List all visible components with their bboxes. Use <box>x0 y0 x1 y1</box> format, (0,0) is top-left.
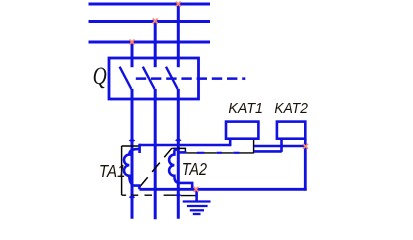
ground bar 1 <box>183 200 211 202</box>
relay coil KAT1 box <box>226 122 258 139</box>
wire jog at TA1 <box>138 144 141 153</box>
TA1 unit outline black left edge <box>121 146 123 195</box>
wire phase B lower <box>154 89 157 219</box>
black dashed wire B overlay <box>186 152 253 154</box>
svg-text:Q: Q <box>93 62 107 90</box>
return wire vertical <box>304 146 307 191</box>
junction X at ground tap <box>194 187 199 192</box>
relay coil KAT2 box <box>277 122 305 139</box>
wire B from TA2 <box>177 151 186 154</box>
bus L1 <box>89 3 211 6</box>
wire phase C lower <box>177 89 180 219</box>
breaker pole 2 blade <box>143 67 155 89</box>
wire phase C upper <box>177 4 180 67</box>
node diamond on phase C above TA2 <box>175 138 182 142</box>
svg-text:KAT2: KAT2 <box>274 101 307 118</box>
black link from TA2 top <box>172 148 185 152</box>
CT TA2 winding <box>169 149 192 189</box>
wire D (node to KAT2 riser) <box>254 150 282 153</box>
ground stem <box>195 189 198 201</box>
KAT2 right edge stub to junction <box>304 139 307 147</box>
TA1 unit outline black dashed bottom edge <box>122 194 197 196</box>
bus L3 <box>89 41 211 44</box>
node diamond on phase A below TA1 <box>129 195 136 199</box>
wire B blue dash segments <box>197 152 240 154</box>
KAT1 stub <box>229 139 232 147</box>
circuit breaker Q box <box>109 58 199 99</box>
junction X at KAT2 right <box>303 144 308 149</box>
dashed diagonal link TA1-TA2 <box>140 148 172 187</box>
wire phase B upper <box>154 22 157 68</box>
svg-text:TA1: TA1 <box>99 161 126 182</box>
wire C (node to right junction) <box>254 145 307 148</box>
ground bar 4 <box>193 213 201 215</box>
bus L2 <box>89 20 211 23</box>
svg-text:TA2: TA2 <box>182 159 207 179</box>
ground bar 3 <box>190 209 204 211</box>
CT TA1 winding <box>124 149 140 189</box>
return wire bottom <box>139 188 306 191</box>
junction X on bus L3 <box>130 40 135 45</box>
wire A (TA1 to KAT1) <box>139 144 230 147</box>
KAT2 stub <box>280 139 283 152</box>
wire phase A lower <box>131 89 134 219</box>
breaker linkage dashed line <box>136 77 246 80</box>
wire phase A upper <box>131 42 134 67</box>
node diamond on phase C below TA2 <box>175 193 182 197</box>
black link to KAT1 bottom right corner <box>253 140 255 154</box>
ground bar 2 <box>187 205 208 207</box>
svg-text:KAT1: KAT1 <box>228 101 263 117</box>
junction X on bus L1 <box>176 2 181 7</box>
node diamond on phase A above TA1 <box>129 138 136 142</box>
junction X on bus L2 <box>153 19 158 24</box>
breaker pole 1 blade <box>120 67 132 89</box>
TA1 unit outline black top edge <box>122 145 140 147</box>
breaker pole 3 blade <box>166 67 178 89</box>
